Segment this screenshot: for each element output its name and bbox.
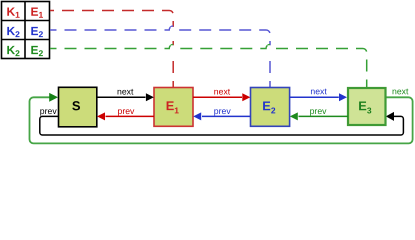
svg-text:next: next — [392, 86, 409, 96]
box S — [59, 87, 97, 127]
dashed wire red: table row1 to E1 — [50, 11, 173, 88]
svg-text:prev: prev — [40, 106, 58, 116]
box E3 — [348, 88, 386, 125]
svg-text:next: next — [214, 87, 231, 97]
wire prev loop S to E3 (inner black) — [40, 116, 404, 135]
svg-text:next: next — [117, 87, 134, 97]
wire next E2 to E3 — [290, 96, 339, 98]
box E2 — [251, 88, 290, 127]
wire next S to E1 — [97, 96, 146, 98]
box E1 — [154, 88, 193, 127]
dashed wire green: table row3 to E3, hops over red and blue — [50, 45, 173, 49]
svg-text:prev: prev — [310, 106, 328, 116]
crossing gap on blue wire at green row — [268, 45, 273, 53]
svg-text:prev: prev — [214, 106, 232, 116]
table (hash buckets) — [2, 2, 50, 59]
wire prev E3 to E2 — [299, 115, 349, 117]
crossing gap on red wire at blue row — [171, 27, 176, 33]
dashed wire blue: table row2 to E2, hop over red — [50, 26, 173, 30]
wire prev E2 to E1 — [202, 115, 251, 117]
svg-text:next: next — [310, 86, 327, 96]
crossing gap on red wire at green row — [171, 45, 176, 53]
wire next E1 to E2 — [193, 96, 242, 98]
svg-text:prev: prev — [117, 106, 135, 116]
wire prev E1 to S — [106, 115, 155, 117]
svg-text:S: S — [72, 98, 81, 113]
wire next loop E3 to S (outer green) — [30, 97, 413, 143]
